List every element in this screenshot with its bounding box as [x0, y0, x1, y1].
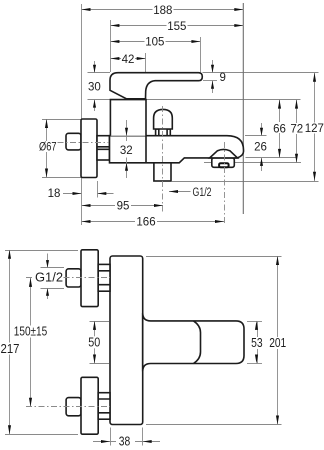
dimension 66 [272, 100, 288, 159]
extension line spout bottom left (y=363.5) [90, 363, 110, 365]
svg-text:G1/2: G1/2 [193, 187, 212, 199]
extension line lever bend (x=145.7) [145, 53, 147, 72]
nipple (inlet union, side view) [66, 133, 81, 150]
bottom flange (front view) [81, 377, 98, 434]
svg-text:155: 155 [167, 21, 186, 33]
svg-text:188: 188 [153, 5, 172, 17]
svg-text:G1/2: G1/2 [35, 270, 63, 285]
extension line left (flange edge, x=81.5) [81, 4, 83, 225]
dimension 50 [86, 321, 103, 364]
extension line body top right (y=135.7) [245, 135, 267, 137]
svg-text:72: 72 [290, 124, 303, 136]
extension line spout bottom (y=157.9) [246, 157, 297, 159]
wall reference line [242, 3, 244, 214]
body tube with spout (side view) [110, 136, 244, 163]
top nipple (front view) [66, 269, 81, 287]
svg-text:9: 9 [220, 72, 226, 84]
centerline top union (y=277.4) [26, 277, 110, 279]
dimension 38 [93, 434, 160, 449]
flange escutcheon (side view) [81, 119, 97, 178]
cartridge housing (side view) [110, 100, 146, 136]
extension line handle end (x=199.9) [200, 37, 202, 72]
svg-text:53: 53 [251, 335, 263, 350]
svg-text:Ø67: Ø67 [39, 141, 57, 153]
svg-text:201: 201 [269, 335, 286, 350]
svg-text:217: 217 [1, 341, 20, 356]
label G1/2 (front view) [34, 272, 62, 284]
svg-text:95: 95 [117, 200, 130, 212]
label G1/2 leader (shower outlet) [169, 187, 212, 199]
dimension 18 [48, 188, 114, 200]
svg-text:26: 26 [254, 142, 267, 154]
svg-text:30: 30 [88, 82, 101, 94]
aerator outlet [219, 163, 229, 167]
extension line spout top right [247, 321, 262, 323]
extension line handle top (y=72.7) [88, 72, 319, 74]
dimension 9 [211, 60, 226, 93]
top flange (front view) [81, 250, 98, 307]
dimension 105 [110, 36, 200, 49]
centerline shower outlet (x=163) [162, 106, 164, 212]
shower outlet pipe G1/2 (side view) [154, 163, 171, 181]
housing seam to body bottom [145, 136, 147, 163]
svg-text:105: 105 [145, 37, 164, 49]
svg-text:66: 66 [273, 124, 286, 136]
extension line housing top (y=99.6) [88, 99, 301, 101]
dimension diameter 67 [37, 119, 57, 178]
dimension 127 [305, 73, 324, 182]
centerline bottom union (y=405.6) [26, 406, 110, 408]
extension line body bottom (y=424.5) [146, 424, 282, 426]
dimension 95 [82, 200, 164, 213]
body slab (front view) [110, 256, 143, 425]
dimension 53 [248, 321, 265, 364]
dimension 150 plus-minus 15 [12, 278, 49, 407]
extension line flange top (y=249.8) [5, 250, 78, 252]
extension line pipe bottom (y=180.8) [172, 181, 319, 183]
centerline inlet union (y=142) [58, 142, 110, 144]
top hex adapter (front view) [98, 264, 110, 291]
extension line body bottom (y=162.7) [204, 162, 301, 164]
spout block (front view) [143, 313, 244, 371]
svg-text:18: 18 [48, 188, 61, 200]
svg-text:42: 42 [122, 54, 135, 66]
dimension 42 [110, 53, 145, 66]
dimension 26 [254, 123, 267, 171]
centerline aerator (x=224) [224, 142, 226, 224]
svg-text:32: 32 [120, 145, 133, 157]
extension line flange right (x=97.3) [97, 181, 99, 198]
extension line spout top left (y=320.9) [90, 321, 110, 323]
svg-text:150±15: 150±15 [14, 324, 48, 339]
svg-text:127: 127 [305, 123, 324, 135]
dimension G1/2 (front view) [46, 254, 49, 300]
bottom hex adapter (front view) [98, 393, 110, 420]
lever handle (side view) [110, 73, 202, 99]
extension line spout bottom right [247, 363, 262, 365]
extension line handle bottom (y=80.7) [203, 80, 217, 82]
extension line body top (y=256) [146, 256, 282, 258]
extension line flange bottom (y=434.2) [5, 434, 78, 436]
diverter knob feet [156, 129, 159, 136]
svg-text:38: 38 [119, 434, 131, 449]
dimension 201 [267, 256, 289, 425]
extension line G1/2 bottom (y=288.1) [41, 288, 65, 290]
dimension 72 [289, 100, 305, 163]
dimension 166 [82, 216, 225, 229]
diverter knob dome [154, 109, 173, 129]
dimension 155 [110, 20, 243, 33]
hex adapter (side view) [97, 136, 110, 160]
aerator dome [210, 149, 238, 157]
extension line flange bottom (y=177.5) [42, 177, 81, 179]
svg-text:50: 50 [88, 334, 100, 349]
extension line lever tip (x=110.4) [110, 20, 112, 72]
extension line G1/2 top (y=267.1) [41, 267, 65, 269]
dimension 188 [82, 5, 244, 18]
extension line body right (x=142.7) [142, 428, 144, 446]
dimension 30 [88, 61, 101, 111]
spout seam [194, 321, 201, 364]
extension line flange top (y=119) [42, 119, 81, 121]
bottom nipple (front view) [66, 398, 81, 416]
aerator ring [212, 158, 235, 167]
svg-text:166: 166 [136, 217, 155, 229]
extension line body left (x=110) [110, 428, 112, 446]
dimension 32 [120, 120, 133, 178]
dimension 217 [0, 250, 21, 434]
